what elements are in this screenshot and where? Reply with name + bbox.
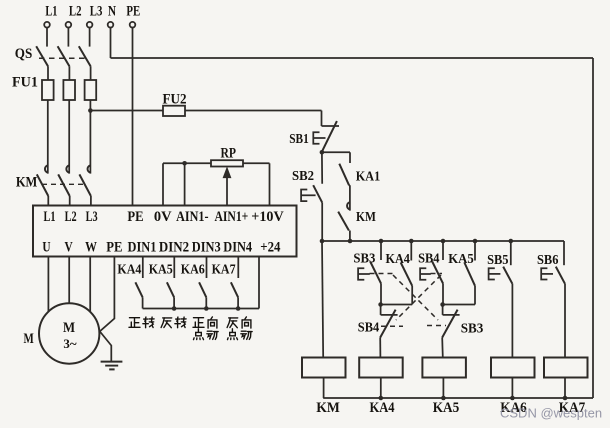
svg-text:DIN3: DIN3 xyxy=(192,240,221,256)
svg-text:SB5: SB5 xyxy=(487,252,509,267)
svg-text:AIN1+: AIN1+ xyxy=(214,209,248,225)
svg-text:DIN1: DIN1 xyxy=(128,240,157,256)
svg-text:3~: 3~ xyxy=(63,336,77,351)
svg-text:L1: L1 xyxy=(44,209,56,225)
svg-text:PE: PE xyxy=(106,240,122,256)
svg-text:SB4: SB4 xyxy=(358,320,380,335)
svg-text:M: M xyxy=(63,320,75,336)
svg-text:KA4: KA4 xyxy=(385,251,410,266)
svg-text:DIN4: DIN4 xyxy=(223,240,252,256)
svg-text:KA1: KA1 xyxy=(356,169,380,184)
svg-text:V: V xyxy=(65,240,74,256)
svg-text:RP: RP xyxy=(220,146,236,162)
svg-text:L2: L2 xyxy=(65,209,77,225)
svg-text:DIN2: DIN2 xyxy=(159,240,189,256)
svg-text:SB3: SB3 xyxy=(353,250,375,265)
svg-text:AIN1-: AIN1- xyxy=(176,209,209,225)
svg-text:L1: L1 xyxy=(45,4,57,20)
svg-text:KA4: KA4 xyxy=(117,261,141,276)
svg-text:M: M xyxy=(23,331,34,347)
svg-text:N: N xyxy=(108,4,117,20)
svg-text:+24: +24 xyxy=(260,240,280,256)
svg-text:L3: L3 xyxy=(86,209,98,225)
svg-text:KM: KM xyxy=(316,400,340,416)
svg-text:FU1: FU1 xyxy=(12,75,38,91)
svg-text:0V: 0V xyxy=(154,209,172,225)
svg-text:+10V: +10V xyxy=(251,209,284,225)
svg-text:PE: PE xyxy=(126,4,140,20)
svg-text:SB1: SB1 xyxy=(289,131,309,146)
svg-text:SB2: SB2 xyxy=(292,168,314,183)
svg-text:CSDN @wespten: CSDN @wespten xyxy=(500,406,602,421)
svg-text:QS: QS xyxy=(15,46,33,62)
svg-text:L2: L2 xyxy=(69,4,82,20)
svg-text:L3: L3 xyxy=(90,4,103,20)
svg-text:KA5: KA5 xyxy=(448,251,474,266)
svg-text:KA5: KA5 xyxy=(433,400,460,416)
svg-text:KA7: KA7 xyxy=(212,261,236,276)
svg-text:KA6: KA6 xyxy=(181,261,205,276)
svg-text:SB6: SB6 xyxy=(537,252,559,267)
svg-text:KA4: KA4 xyxy=(369,400,395,416)
svg-text:KA5: KA5 xyxy=(149,261,173,276)
svg-text:W: W xyxy=(85,240,97,256)
svg-text:SB4: SB4 xyxy=(418,250,440,265)
svg-text:KM: KM xyxy=(356,209,376,224)
svg-text:KM: KM xyxy=(16,175,38,191)
svg-text:U: U xyxy=(42,240,50,256)
svg-text:SB3: SB3 xyxy=(461,321,484,336)
svg-text:PE: PE xyxy=(127,209,143,225)
